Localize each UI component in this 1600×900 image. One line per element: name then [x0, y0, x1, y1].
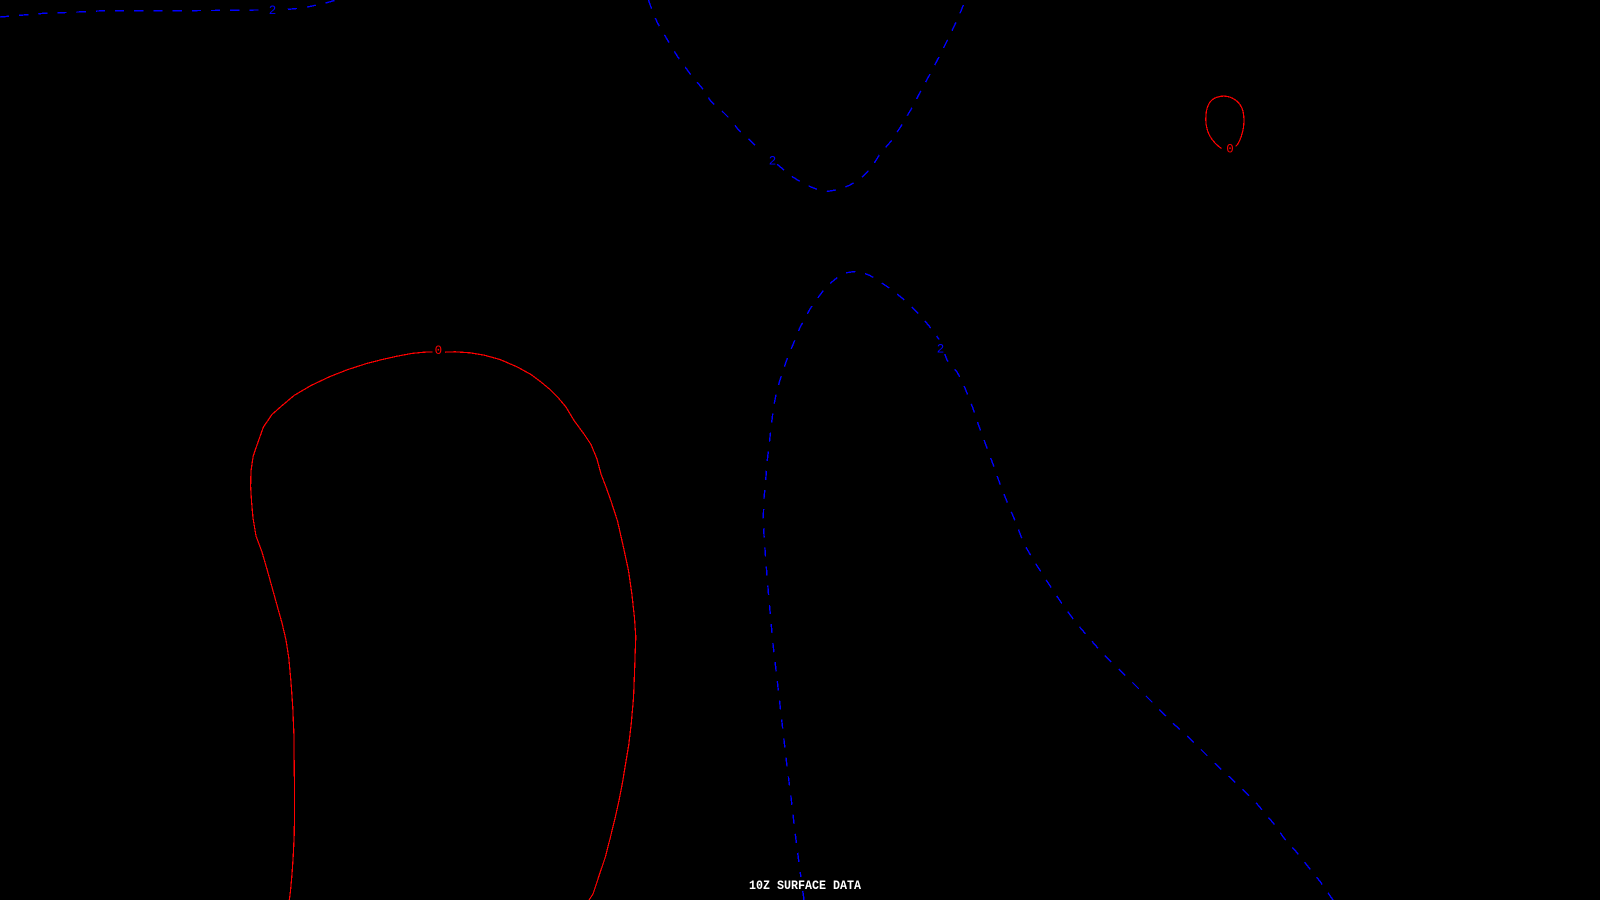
svg-text:10Z SURFACE DATA: 10Z SURFACE DATA — [749, 879, 861, 893]
contour line: red solid 0-isopleth, large dome left — [251, 352, 636, 900]
title background block — [748, 877, 863, 890]
svg-text:0: 0 — [1226, 143, 1234, 157]
label mask: gap for top-left 2 — [268, 3, 285, 17]
contour line: blue dashed 2-isopleth, top-left — [0, 0, 336, 17]
label mask: gap for dome 2 — [933, 340, 951, 355]
svg-text:2: 2 — [937, 342, 945, 356]
svg-text:2: 2 — [269, 4, 277, 18]
contour line: blue dashed 2-isopleth, top-middle U shape — [649, 0, 966, 191]
label mask: gap for U-curve 2 — [761, 151, 777, 166]
label mask: gap for red dome 0 — [433, 344, 446, 357]
contour line: red solid 0-isopleth, small closed loop top-right — [1206, 96, 1244, 148]
svg-text:2: 2 — [769, 155, 777, 169]
svg-text:0: 0 — [435, 344, 443, 358]
contour line: blue dashed 2-isopleth, central dome with long tails — [763, 272, 1333, 900]
